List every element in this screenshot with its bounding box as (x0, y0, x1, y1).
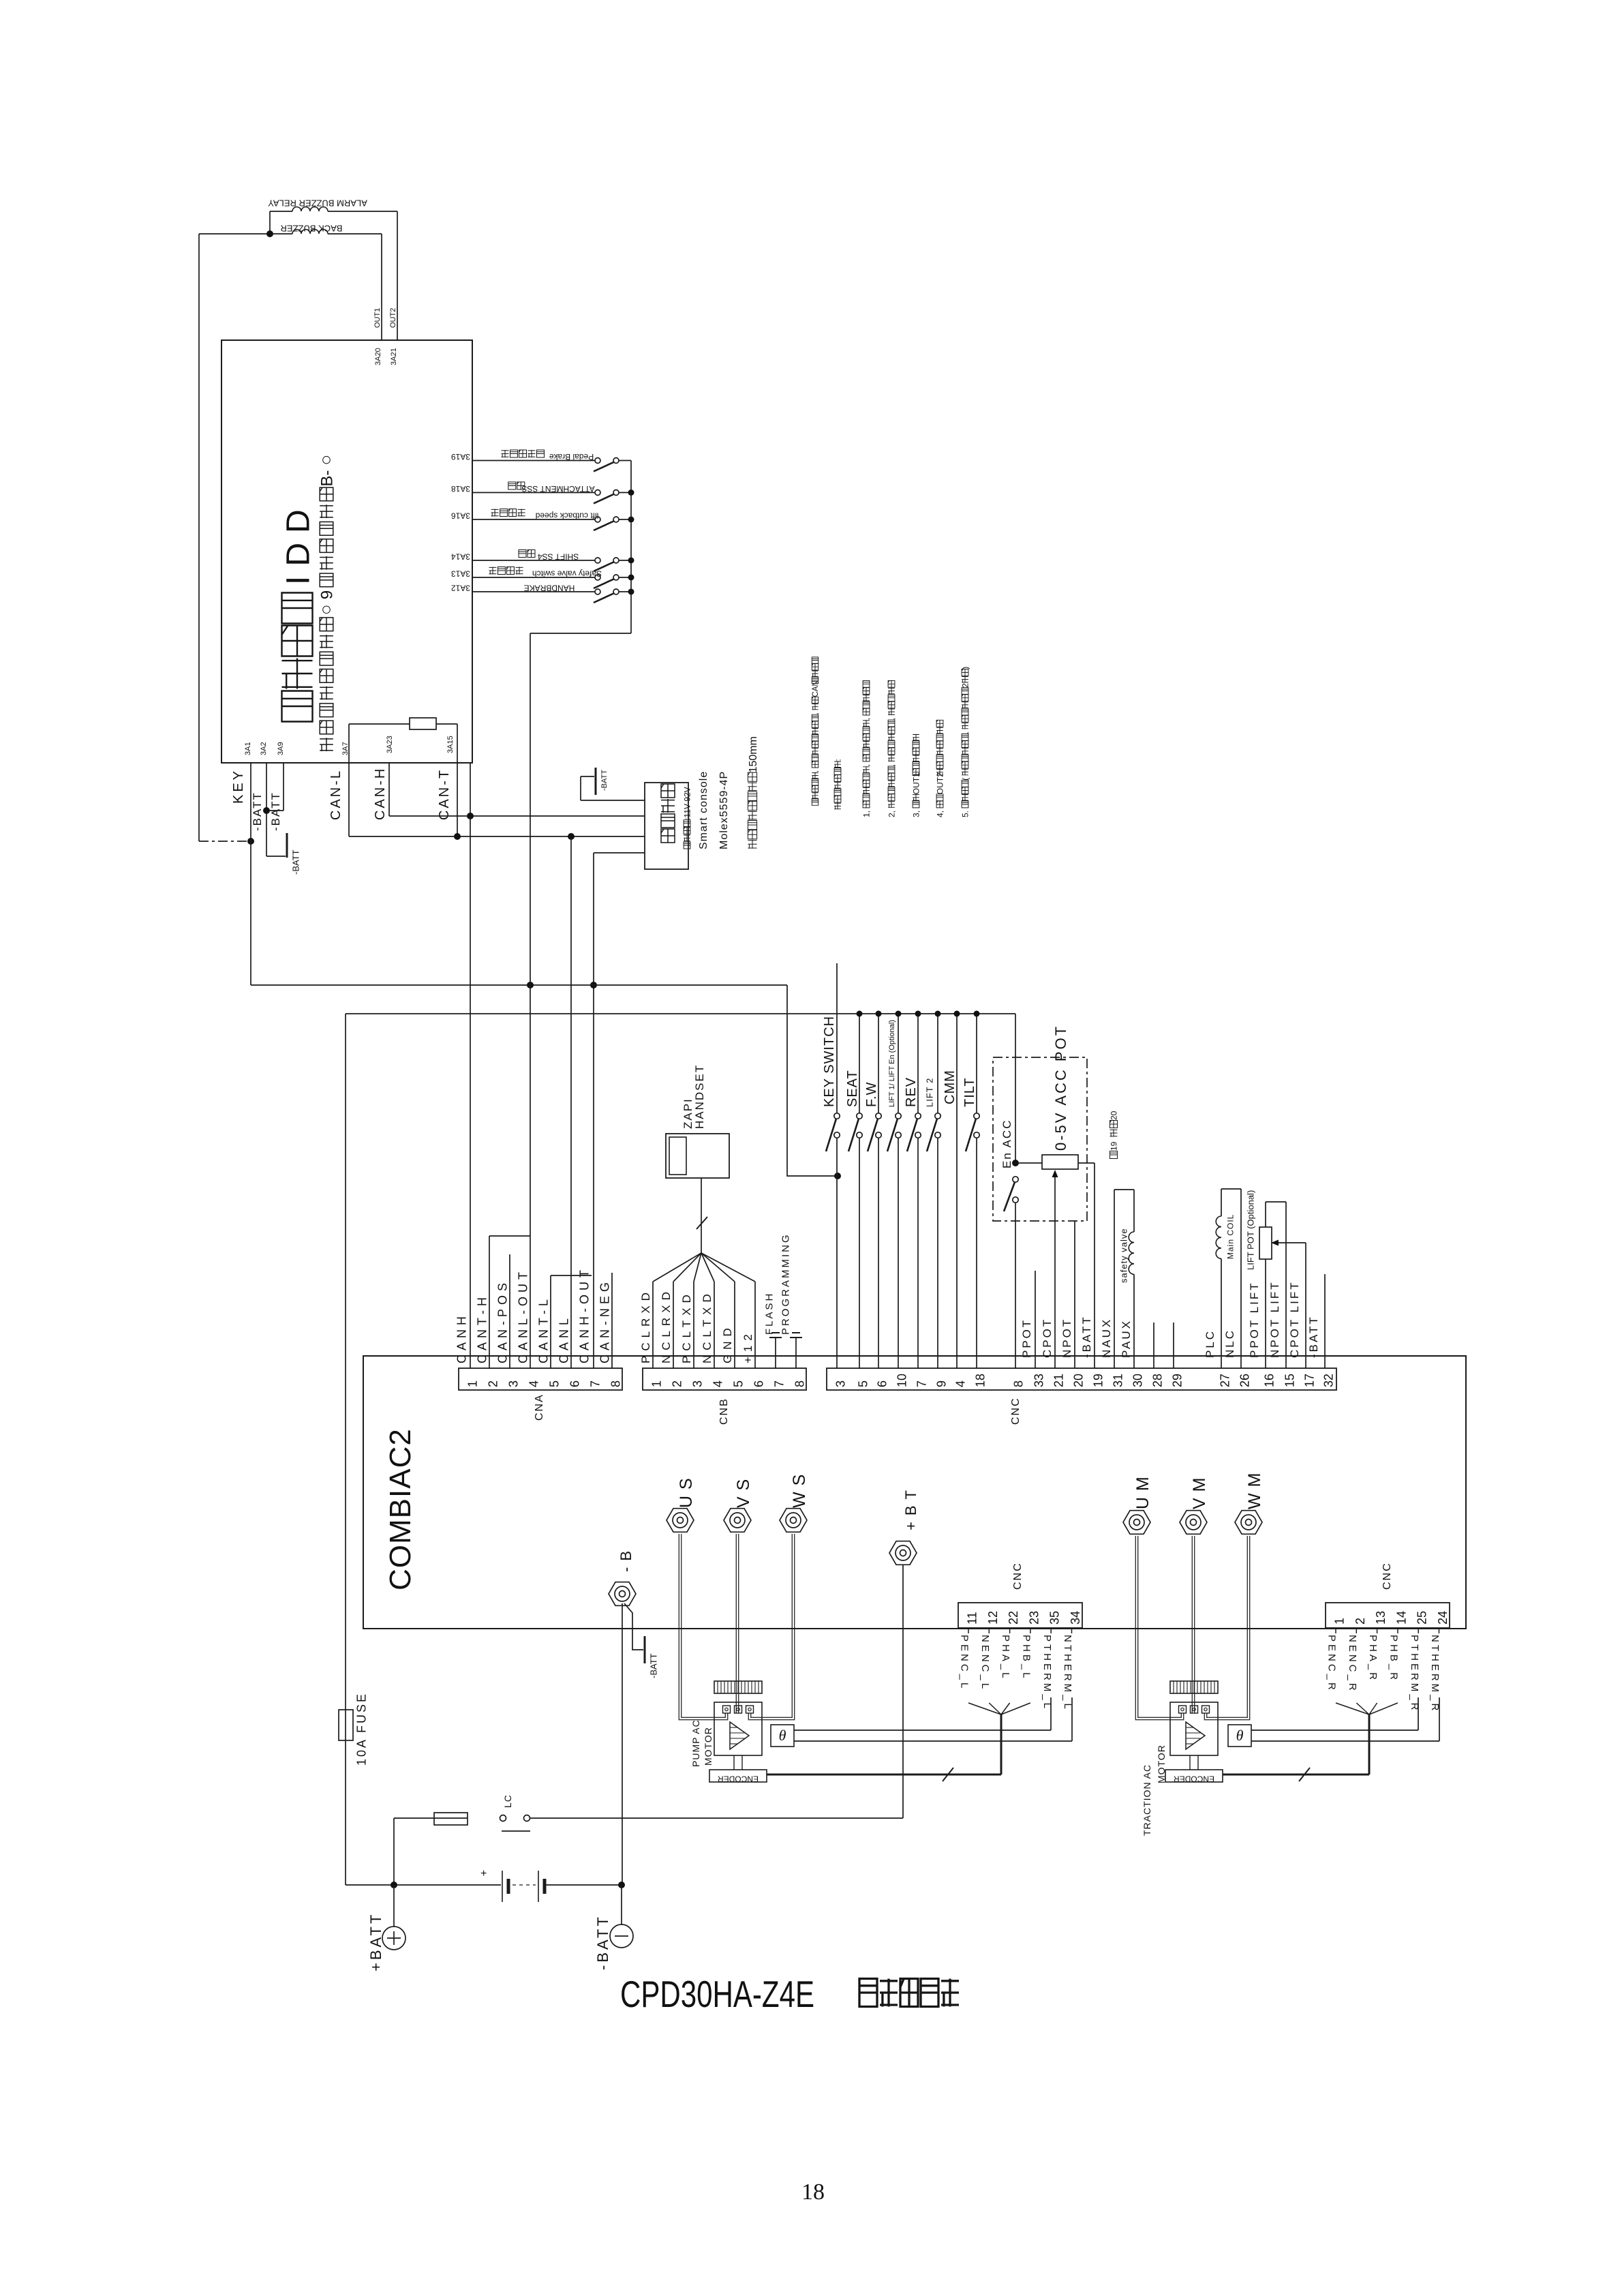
svg-text:CNB: CNB (718, 1398, 730, 1425)
svg-text:NPOT LIFT: NPOT LIFT (1268, 1280, 1281, 1358)
svg-text:CANT-L: CANT-L (537, 1295, 551, 1363)
svg-text:LIFT 1/ LIFT En (Optional): LIFT 1/ LIFT En (Optional) (888, 1020, 896, 1107)
svg-text:TRACTION AC: TRACTION AC (1142, 1764, 1152, 1836)
svg-text:2: 2 (671, 1380, 684, 1387)
svg-text:8: 8 (609, 1380, 623, 1387)
svg-text:(: ( (960, 778, 970, 781)
svg-text:,: , (812, 712, 820, 714)
svg-text:NLC: NLC (1223, 1329, 1236, 1358)
svg-text::11V-92V: :11V-92V (682, 787, 692, 819)
svg-text:+12: +12 (741, 1329, 754, 1363)
svg-text:3A19: 3A19 (451, 452, 470, 462)
svg-text:19: 19 (1092, 1374, 1105, 1387)
svg-text:6: 6 (568, 1380, 582, 1387)
svg-text:PCLRXD: PCLRXD (639, 1288, 652, 1363)
svg-text:3A9: 3A9 (277, 742, 285, 755)
svg-text:CPD30HA-Z4E: CPD30HA-Z4E (620, 1973, 814, 2015)
svg-text:23: 23 (1027, 1611, 1041, 1625)
svg-text:27: 27 (1219, 1374, 1232, 1387)
svg-text:3A16: 3A16 (451, 511, 470, 521)
svg-text:PTHERM_R: PTHERM_R (1409, 1635, 1420, 1713)
svg-text:4: 4 (711, 1380, 725, 1387)
svg-text:PENC_L: PENC_L (959, 1635, 970, 1691)
svg-text:WM: WM (1245, 1467, 1264, 1509)
svg-text:,: , (887, 764, 896, 766)
svg-text:3: 3 (834, 1380, 848, 1387)
svg-text:+BT: +BT (902, 1484, 919, 1530)
svg-text:-B: -B (617, 1545, 634, 1572)
svg-text:Main COIL: Main COIL (1225, 1214, 1235, 1259)
svg-text:4,: 4, (935, 811, 945, 817)
svg-text:CAN: CAN (812, 680, 820, 697)
svg-text:CANL-OUT: CANL-OUT (517, 1268, 530, 1363)
svg-text:REV: REV (904, 1077, 919, 1107)
svg-text:CNA: CNA (534, 1393, 545, 1421)
svg-text:HANDBRAKE: HANDBRAKE (524, 584, 575, 593)
svg-text:PENC_R: PENC_R (1326, 1635, 1338, 1693)
svg-text:,: , (861, 718, 871, 720)
svg-text:3: 3 (691, 1380, 705, 1387)
svg-text:150mm: 150mm (748, 736, 759, 772)
svg-text:NTHERM_R: NTHERM_R (1429, 1635, 1441, 1713)
svg-text:MOTOR: MOTOR (1156, 1744, 1167, 1783)
svg-text:θ: θ (779, 1727, 786, 1744)
svg-text:8: 8 (1012, 1380, 1026, 1387)
svg-text:18: 18 (974, 1374, 988, 1387)
svg-text:NCLTXD: NCLTXD (701, 1289, 714, 1363)
svg-text:CAN-H: CAN-H (373, 767, 388, 820)
svg-text:PPOT LIFT: PPOT LIFT (1248, 1281, 1261, 1358)
svg-text:IDD: IDD (280, 500, 316, 585)
svg-text:PAUX: PAUX (1120, 1319, 1133, 1358)
svg-text:NCLRXD: NCLRXD (660, 1287, 673, 1363)
svg-text:19: 19 (1109, 1141, 1118, 1151)
svg-text:7: 7 (589, 1380, 602, 1387)
svg-text:NENC_L: NENC_L (979, 1635, 991, 1691)
svg-text:CAN-T: CAN-T (437, 768, 452, 820)
svg-text:Pedal Brake: Pedal Brake (549, 452, 594, 462)
svg-text:En ACC: En ACC (1000, 1119, 1013, 1168)
svg-text:B-: B- (318, 470, 337, 487)
svg-text:24: 24 (1436, 1611, 1450, 1625)
svg-text:CNC: CNC (1381, 1562, 1393, 1590)
svg-text:31: 31 (1112, 1374, 1125, 1387)
svg-text:CPOT LIFT: CPOT LIFT (1288, 1280, 1301, 1358)
svg-text:9: 9 (318, 590, 337, 599)
svg-text:0-5V ACC POT: 0-5V ACC POT (1052, 1025, 1069, 1151)
svg-text:3A18: 3A18 (451, 484, 470, 494)
svg-text:OUT2: OUT2 (389, 308, 397, 328)
svg-text:8: 8 (793, 1380, 807, 1387)
svg-text:2,: 2, (887, 811, 896, 817)
svg-text:22: 22 (1007, 1611, 1020, 1625)
svg-text:PTHERM_L: PTHERM_L (1041, 1635, 1053, 1711)
svg-text:34: 34 (1069, 1611, 1082, 1625)
svg-text:3A13: 3A13 (451, 569, 470, 579)
svg-text:PCLTXD: PCLTXD (680, 1290, 693, 1363)
svg-text:FLASH: FLASH (763, 1292, 775, 1335)
svg-text:WS: WS (790, 1468, 809, 1508)
svg-text:11: 11 (966, 1612, 979, 1625)
svg-text:,: , (887, 718, 896, 720)
svg-text:LIFT 2: LIFT 2 (925, 1078, 935, 1107)
svg-text:): ) (960, 667, 970, 669)
svg-text:Molex5559-4P: Molex5559-4P (718, 771, 730, 849)
svg-text:9: 9 (935, 1380, 949, 1387)
svg-text:3A1: 3A1 (244, 742, 252, 755)
svg-text:4: 4 (527, 1380, 541, 1387)
svg-text:UM: UM (1133, 1470, 1152, 1509)
svg-text:3: 3 (507, 1380, 521, 1387)
svg-text:20: 20 (1072, 1374, 1086, 1387)
svg-text:OUT1: OUT1 (373, 308, 382, 328)
svg-text:25: 25 (1416, 1611, 1429, 1625)
svg-text:CAN-POS: CAN-POS (496, 1279, 510, 1363)
svg-text:12: 12 (986, 1611, 1000, 1625)
svg-text:-BATT: -BATT (649, 1653, 659, 1678)
svg-text:29: 29 (1171, 1374, 1184, 1387)
svg-text:3A12: 3A12 (451, 584, 470, 593)
svg-text:4: 4 (954, 1380, 968, 1387)
svg-text:5: 5 (857, 1380, 870, 1387)
svg-text:CANT-H: CANT-H (476, 1293, 489, 1363)
svg-text:,: , (812, 770, 820, 772)
svg-text:KEY SWITCH: KEY SWITCH (822, 1016, 837, 1107)
svg-text:PPOT: PPOT (1020, 1318, 1033, 1358)
svg-text:1,: 1, (861, 811, 871, 817)
svg-text:6: 6 (752, 1380, 766, 1387)
svg-text:5: 5 (548, 1380, 562, 1387)
svg-text:CAN-L: CAN-L (328, 769, 343, 820)
svg-text:14: 14 (1394, 1611, 1408, 1625)
svg-text:28: 28 (1151, 1374, 1165, 1387)
svg-text:3A14: 3A14 (451, 552, 470, 562)
svg-text:PROGRAMMING: PROGRAMMING (780, 1233, 791, 1335)
svg-text:21: 21 (1052, 1374, 1066, 1387)
svg-text:PUMP AC: PUMP AC (690, 1719, 701, 1767)
svg-text:lift cutback speed: lift cutback speed (536, 511, 599, 521)
svg-text:1: 1 (1333, 1618, 1347, 1625)
svg-text:-BATT: -BATT (1080, 1315, 1093, 1358)
svg-text:LC: LC (502, 1794, 513, 1808)
svg-text:VM: VM (1190, 1472, 1209, 1510)
svg-text:7: 7 (773, 1380, 786, 1387)
svg-text:PHA_R: PHA_R (1367, 1635, 1379, 1682)
svg-text:CNC: CNC (1010, 1397, 1022, 1425)
svg-text:Safety valve switch: Safety valve switch (532, 569, 602, 579)
svg-text:-BATT: -BATT (291, 849, 301, 875)
svg-text:32: 32 (1322, 1374, 1336, 1387)
svg-text:3,: 3, (911, 811, 921, 817)
svg-text:MOTOR: MOTOR (703, 1727, 714, 1766)
svg-text:US: US (677, 1472, 696, 1508)
svg-text:26: 26 (1238, 1374, 1252, 1387)
svg-text:3A20: 3A20 (374, 348, 382, 365)
svg-text:PHA_L: PHA_L (1000, 1635, 1011, 1681)
svg-text:NAUX: NAUX (1100, 1318, 1113, 1358)
svg-text:-BATT: -BATT (269, 791, 282, 831)
svg-text:F.W: F.W (864, 1082, 879, 1107)
svg-text:BACK BUZZER: BACK BUZZER (280, 224, 342, 234)
svg-text:10A FUSE: 10A FUSE (355, 1692, 369, 1766)
svg-text:CANH-OUT: CANH-OUT (578, 1266, 592, 1363)
svg-text:COMBIAC2: COMBIAC2 (384, 1428, 417, 1590)
svg-text:PLC: PLC (1204, 1329, 1216, 1358)
svg-text:2: 2 (1353, 1618, 1367, 1625)
svg-text:Smart console: Smart console (698, 771, 709, 849)
svg-text:CPOT: CPOT (1041, 1318, 1054, 1358)
svg-text:ENCODER: ENCODER (718, 1774, 759, 1784)
svg-text:1: 1 (466, 1380, 480, 1387)
svg-text:-BATT: -BATT (251, 791, 264, 831)
svg-text:5: 5 (732, 1380, 746, 1387)
svg-text:6: 6 (876, 1380, 889, 1387)
svg-text:20: 20 (1109, 1111, 1118, 1120)
svg-text:KEY: KEY (231, 768, 246, 804)
svg-text:,: , (960, 731, 970, 734)
svg-text:SEAT: SEAT (845, 1070, 860, 1107)
svg-text:1: 1 (650, 1380, 664, 1387)
svg-text:+: + (480, 1868, 487, 1879)
svg-text:NPOT: NPOT (1060, 1318, 1073, 1358)
svg-text:PHB_L: PHB_L (1021, 1635, 1032, 1681)
svg-text:,: , (861, 764, 871, 766)
svg-text:3A2: 3A2 (260, 742, 268, 755)
svg-text:safety valve: safety valve (1119, 1228, 1129, 1283)
svg-text:16: 16 (1263, 1374, 1276, 1387)
svg-text:5.: 5. (960, 811, 970, 817)
svg-text:SHIFT SS4: SHIFT SS4 (537, 552, 579, 562)
svg-text:PHB_R: PHB_R (1388, 1635, 1400, 1682)
svg-text::: : (833, 759, 842, 761)
svg-text:3A21: 3A21 (390, 348, 398, 365)
svg-text:GND: GND (721, 1323, 734, 1363)
svg-text:ALARM BUZZER RELAY: ALARM BUZZER RELAY (268, 198, 367, 209)
svg-text:NENC_R: NENC_R (1347, 1635, 1358, 1693)
svg-text:17: 17 (1303, 1374, 1317, 1387)
svg-text:18: 18 (801, 2179, 825, 2205)
svg-text:θ: θ (1236, 1727, 1244, 1744)
svg-text:2: 2 (487, 1380, 500, 1387)
svg-text:10: 10 (896, 1374, 909, 1387)
svg-text:LIFT POT (Optional): LIFT POT (Optional) (1246, 1190, 1256, 1270)
svg-text:+BATT: +BATT (367, 1912, 384, 1972)
svg-text:ENCODER: ENCODER (1174, 1774, 1214, 1784)
svg-text:3A23: 3A23 (386, 736, 394, 753)
svg-text:ATTACHMENT SSS: ATTACHMENT SSS (521, 484, 594, 494)
svg-text:13: 13 (1374, 1611, 1388, 1625)
svg-text:HANDSET: HANDSET (693, 1064, 706, 1129)
svg-text:CMM: CMM (943, 1070, 958, 1104)
svg-text:2: 2 (960, 683, 970, 688)
svg-text:-BATT: -BATT (594, 1914, 611, 1970)
svg-text:VS: VS (734, 1473, 753, 1508)
svg-text:CAN-NEG: CAN-NEG (598, 1278, 612, 1363)
svg-text:30: 30 (1131, 1374, 1145, 1387)
svg-text:NTHERM_L: NTHERM_L (1062, 1635, 1073, 1712)
svg-text:TILT: TILT (962, 1077, 977, 1107)
svg-text:-BATT: -BATT (1307, 1315, 1320, 1358)
svg-text:CNC: CNC (1012, 1562, 1024, 1590)
svg-text:7: 7 (915, 1380, 929, 1387)
svg-text:3A15: 3A15 (446, 736, 455, 753)
svg-text:33: 33 (1032, 1374, 1046, 1387)
svg-text:35: 35 (1048, 1611, 1062, 1625)
svg-text:15: 15 (1283, 1374, 1297, 1387)
svg-text:OUT2: OUT2 (935, 772, 945, 794)
svg-text:-BATT: -BATT (600, 770, 609, 791)
